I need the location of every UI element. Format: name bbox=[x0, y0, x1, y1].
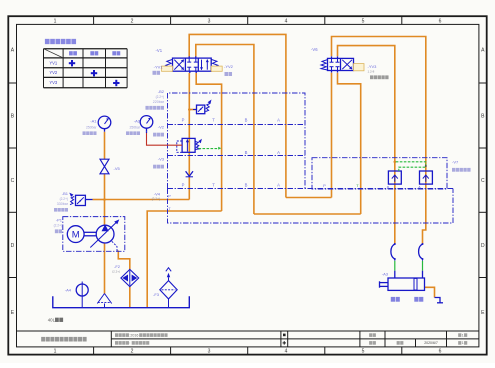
svg-text:C: C bbox=[11, 178, 15, 184]
svg-text:M: M bbox=[72, 230, 80, 241]
svg-text:1: 1 bbox=[54, 18, 57, 24]
svg-text:-B2: -B2 bbox=[158, 89, 165, 94]
svg-text:T: T bbox=[212, 118, 215, 123]
svg-text:-P1: -P1 bbox=[56, 218, 63, 223]
svg-text:B: B bbox=[245, 183, 248, 188]
svg-text:-V7: -V7 bbox=[452, 159, 459, 164]
svg-text:D: D bbox=[11, 243, 15, 249]
svg-text:6: 6 bbox=[439, 18, 442, 24]
svg-text:-YV1: -YV1 bbox=[154, 64, 164, 69]
svg-text:1: 1 bbox=[462, 333, 464, 337]
svg-text:(2.2+): (2.2+) bbox=[60, 197, 68, 201]
svg-text:5: 5 bbox=[362, 349, 365, 355]
svg-text:D: D bbox=[481, 243, 485, 249]
svg-text:-V1: -V1 bbox=[156, 48, 163, 53]
svg-text:B: B bbox=[245, 118, 248, 123]
svg-text:1.2-8: 1.2-8 bbox=[368, 70, 375, 74]
svg-text:2: 2 bbox=[131, 18, 134, 24]
svg-text:220bar: 220bar bbox=[153, 100, 165, 104]
svg-text:3: 3 bbox=[208, 18, 211, 24]
svg-text:5: 5 bbox=[362, 18, 365, 24]
svg-text:-A1: -A1 bbox=[90, 119, 97, 124]
svg-text:A: A bbox=[277, 118, 280, 123]
svg-text::2016: :2016 bbox=[129, 333, 138, 337]
svg-text:(2.2+): (2.2+) bbox=[112, 270, 120, 274]
svg-text:-YV2: -YV2 bbox=[224, 64, 234, 69]
svg-text:-A3: -A3 bbox=[382, 272, 389, 277]
svg-text:40L: 40L bbox=[48, 317, 56, 322]
svg-text:2020/6/7: 2020/6/7 bbox=[424, 341, 438, 345]
svg-text:250bar: 250bar bbox=[86, 125, 97, 129]
svg-text:P: P bbox=[182, 118, 185, 123]
svg-text:1: 1 bbox=[462, 341, 464, 345]
svg-text:P: P bbox=[182, 183, 185, 188]
svg-text:-B1: -B1 bbox=[62, 191, 69, 196]
svg-text:A: A bbox=[277, 183, 280, 188]
svg-text:B: B bbox=[387, 184, 390, 189]
svg-text:A: A bbox=[277, 150, 280, 155]
svg-text:4: 4 bbox=[285, 349, 288, 355]
svg-text:-V3: -V3 bbox=[158, 156, 165, 161]
svg-text:-A2: -A2 bbox=[134, 119, 141, 124]
svg-text:YV1: YV1 bbox=[49, 60, 58, 65]
svg-text:-A4: -A4 bbox=[65, 288, 72, 293]
svg-text:YV3: YV3 bbox=[49, 80, 58, 85]
svg-text:C: C bbox=[481, 178, 485, 184]
svg-text:2: 2 bbox=[131, 349, 134, 355]
svg-text:P: P bbox=[168, 193, 171, 198]
svg-text:-V2: -V2 bbox=[158, 124, 165, 129]
svg-text:(2.2+): (2.2+) bbox=[152, 197, 160, 201]
svg-text:-F2: -F2 bbox=[114, 264, 121, 269]
svg-text:6: 6 bbox=[439, 349, 442, 355]
svg-text:4: 4 bbox=[285, 18, 288, 24]
svg-text:330bar: 330bar bbox=[57, 202, 69, 206]
svg-text:T: T bbox=[212, 183, 215, 188]
svg-text:A: A bbox=[418, 184, 421, 189]
svg-text:-V4: -V4 bbox=[154, 192, 161, 197]
svg-text:-V5: -V5 bbox=[114, 166, 121, 171]
svg-text::: : bbox=[129, 341, 130, 345]
svg-text:-V6: -V6 bbox=[311, 47, 318, 52]
svg-text:YV2: YV2 bbox=[49, 70, 58, 75]
svg-text:1: 1 bbox=[54, 349, 57, 355]
svg-text:-F3: -F3 bbox=[153, 292, 160, 297]
svg-text:250bar: 250bar bbox=[129, 125, 140, 129]
svg-text:(2.2+): (2.2+) bbox=[54, 224, 62, 228]
svg-text:P: P bbox=[323, 183, 326, 188]
svg-text:B: B bbox=[245, 150, 248, 155]
svg-text:3: 3 bbox=[208, 349, 211, 355]
svg-text:(2.2+): (2.2+) bbox=[156, 95, 164, 99]
svg-text:-YV3: -YV3 bbox=[368, 64, 378, 69]
